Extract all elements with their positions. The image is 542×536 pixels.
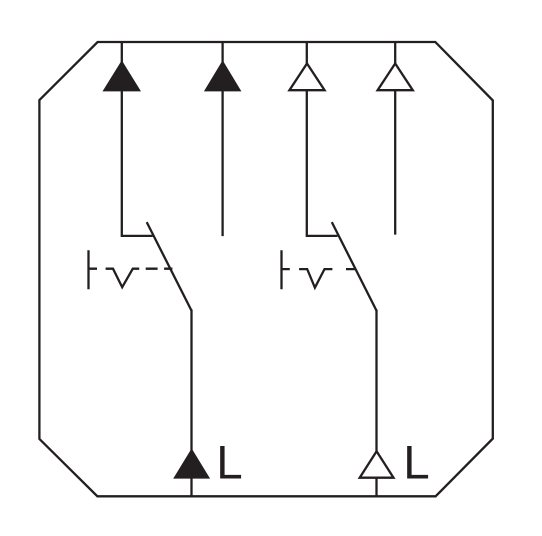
push-button actuator of S2 xyxy=(282,250,356,289)
arrow 2 (filled) switched-line out xyxy=(204,60,242,91)
wire: top terminal 3 down to switch S2 fixed contact xyxy=(307,42,338,236)
wire: top terminal 4 feed-through xyxy=(394,42,396,235)
wire: top terminal 2 feed-through xyxy=(221,42,223,236)
arrow 1 (filled) switched-line out xyxy=(103,60,142,91)
wire: switch S1 lever to terminal L (left) xyxy=(190,310,192,497)
switch S1 moving contact (lever) xyxy=(147,222,192,311)
terminal arrow L2 (outline) xyxy=(360,451,394,477)
svg-text:L: L xyxy=(216,436,242,489)
terminal arrow L1 (filled) xyxy=(173,448,210,478)
wire: top terminal 1 down to switch S1 fixed contact xyxy=(122,42,153,236)
arrow 3 (outline) switched-line out xyxy=(289,64,324,91)
push-button actuator of S1 xyxy=(89,250,173,289)
arrow 4 (outline) switched-line out xyxy=(378,64,413,91)
wire: switch S2 lever to terminal L (right) xyxy=(375,310,377,497)
svg-text:L: L xyxy=(403,437,429,490)
switch insert housing outline xyxy=(39,42,492,496)
switch S2 moving contact (lever) xyxy=(332,222,377,311)
